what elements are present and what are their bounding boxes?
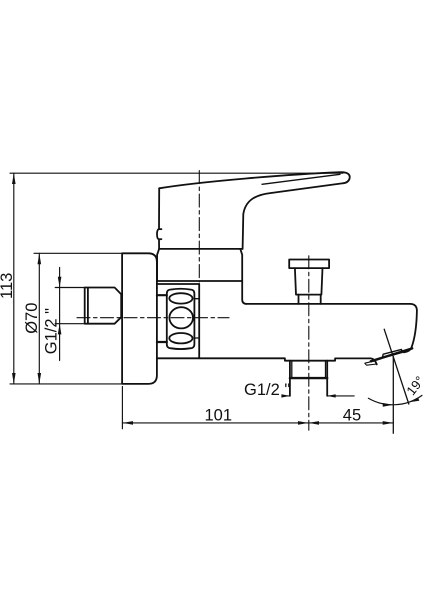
svg-text:19°: 19° [403,373,424,398]
node arrow Ø70 top [38,253,42,264]
node arrow G1/2 left top [58,277,62,288]
node arrow Ø70 bottom [38,373,42,384]
node G1/2 bottom dimension line [284,395,354,397]
wire handle centerline [198,171,200,282]
svg-text:G1/2 ": G1/2 " [43,308,61,354]
ground flange plate Ø70 [122,253,157,384]
node 113 dimension line [13,173,15,384]
svg-text:101: 101 [205,406,233,424]
node arrow 101 right [298,421,309,425]
node spout aerator plate [382,349,402,358]
node arrow arc right at slant [409,397,420,402]
wire cartridge right connector ticks [194,299,199,338]
wire handle bottom line [159,248,243,250]
wire 45 extension line right (angle leg vertical) [392,357,394,433]
node outlet thread inner lines [292,361,326,378]
wire diverter centerline [308,256,310,430]
wire bottom extension line (113/Ø70 bottom) [10,383,122,385]
node 19 degree arc [368,395,422,404]
wire top extension line (113 top, to handle tip) [10,172,343,174]
node handle left edge with clip bump [157,188,161,249]
wire body bottom edge left [157,358,377,364]
node diverter knob stem [295,268,323,295]
node arrow 113 top [12,173,16,184]
node arrow arc left at vertical [383,403,394,407]
node arrow 45 right [383,421,394,425]
wire handle inner tip line [262,174,340,184]
wire nut extension lines [55,288,84,324]
node 19 degree slant line [384,329,409,404]
node cartridge hole bottom ellipse [169,333,192,343]
node A lever handle [159,172,350,249]
wire 101/45 extension line left [121,387,123,429]
svg-text:45: 45 [343,407,361,425]
node bottom outlet port G1/2 [290,361,327,396]
node arrow 101 left [122,421,133,425]
node arrow G1/2 left bottom [58,324,62,335]
node spout face bold line [371,348,412,361]
node arrow G1/2 bottom right [327,394,336,397]
node G1/2 left dimension line [59,268,61,361]
node diverter knob cap [289,260,329,269]
node cartridge hole top ellipse [169,293,192,303]
wire Ø70 top extension line [34,252,122,254]
node cartridge section right edge [198,284,200,358]
node outlet thread end bold line [290,377,327,379]
wire cartridge left connector ticks [157,295,167,342]
node spout foot lip [365,361,377,365]
wire horizontal centerline [77,317,229,319]
svg-text:G1/2 ": G1/2 " [244,381,290,399]
node collar flares and sides [157,249,242,281]
svg-text:113: 113 [0,273,16,299]
node arrow 113 bottom [12,373,16,384]
wire cartridge ring line upper [157,280,242,282]
svg-text:Ø70: Ø70 [23,303,41,334]
node 101/45 dimension line [122,422,393,424]
node hex nut G1/2 wall union [85,288,122,324]
node arrow 45 left [309,421,320,425]
node cartridge sleeve container [167,289,195,349]
node arrow G1/2 bottom left [281,394,290,397]
node diverter knob neck [299,295,321,304]
node Ø70 dimension line [38,253,40,384]
node body step right of cartridge [242,281,246,304]
wire cartridge ring line lower [157,283,199,285]
node body top edge and spout right curve [247,304,417,352]
node cartridge hole middle circle [169,307,193,328]
